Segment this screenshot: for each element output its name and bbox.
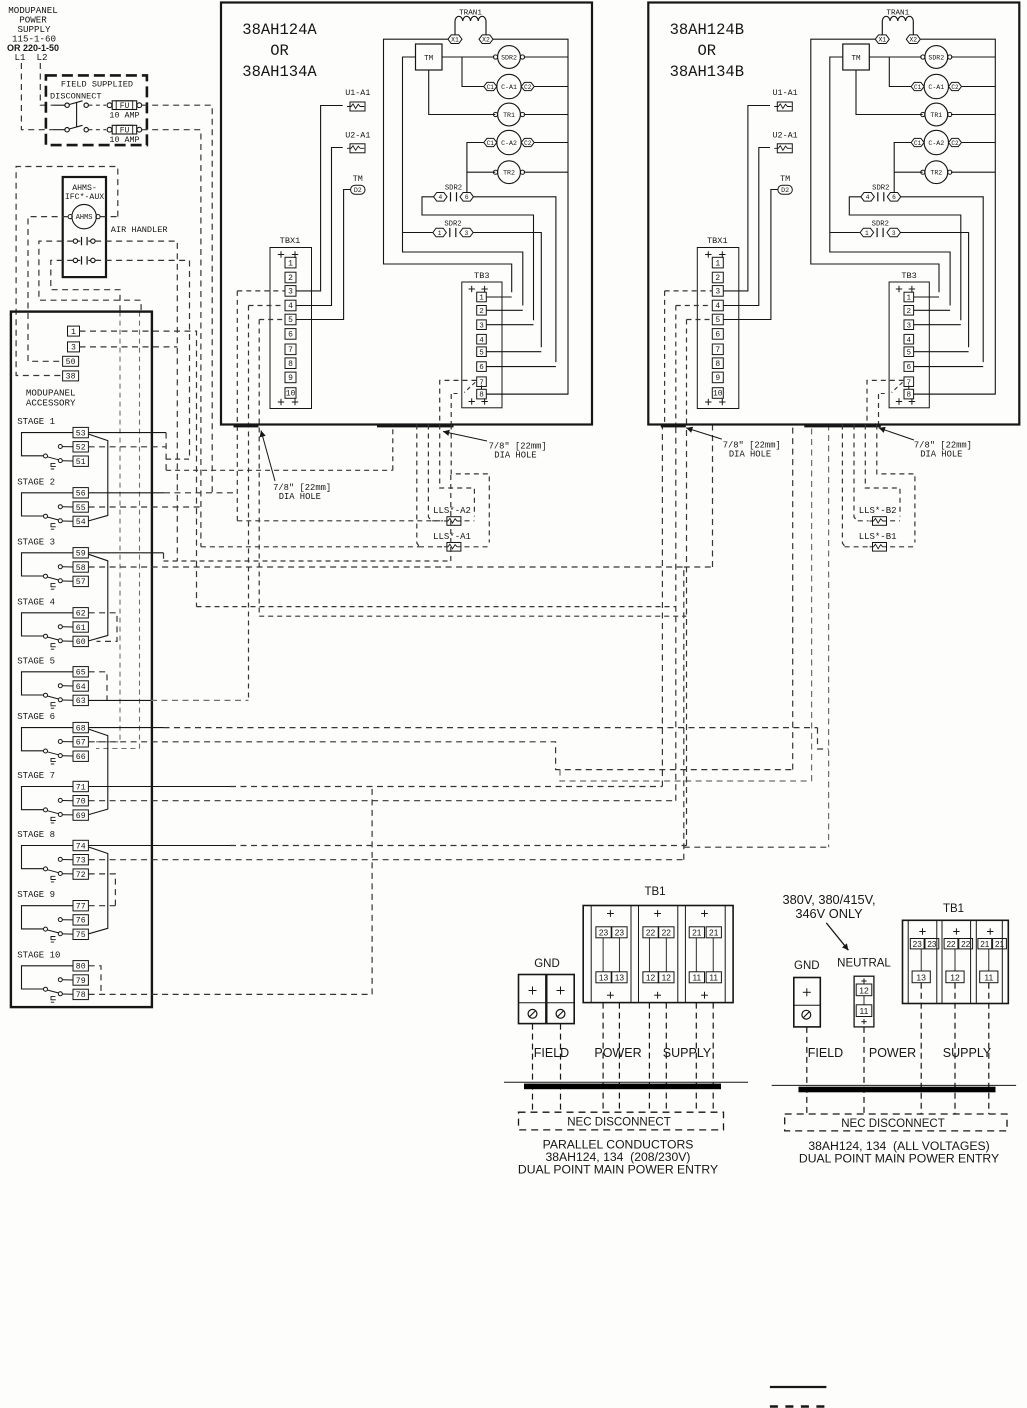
wire mesh run y520 to LLS-A2: [237, 520, 443, 522]
box AHMS-IFC*-AUX: [63, 177, 106, 277]
svg-text:38AH134A: 38AH134A: [242, 63, 317, 81]
switch stage 5 contact: [22, 672, 74, 695]
screw terminal GND right: [802, 1010, 811, 1019]
svg-text:C1: C1: [914, 140, 922, 147]
thick entry bar right: [799, 1087, 996, 1093]
svg-text:L1 L2: L1 L2: [14, 52, 47, 63]
terminal 23 pair TB1 right: [910, 939, 924, 949]
svg-text:6: 6: [288, 331, 293, 340]
wire mesh column 828: [828, 425, 830, 848]
terminal 51: [73, 456, 88, 466]
terminal TB3-2 unit B: [904, 306, 914, 316]
svg-text:AHMS-: AHMS-: [72, 184, 97, 193]
svg-text:23: 23: [913, 940, 923, 949]
wire TB1 right internal links: [920, 949, 922, 971]
svg-text:TR2: TR2: [503, 170, 515, 177]
terminal TB3-4 unit B: [904, 334, 914, 344]
svg-text:AIR HANDLER: AIR HANDLER: [111, 225, 168, 235]
svg-text:69: 69: [76, 812, 86, 821]
wire LLS column 1 B1: [842, 425, 845, 547]
box unit 38AH124B: [648, 3, 1019, 425]
wire LLS column 3 A2: [440, 425, 475, 517]
terminal X1 unit B: [875, 35, 889, 44]
switch stage 3 contact: [22, 553, 74, 576]
terminal 13 pair TB1 left: [596, 972, 611, 983]
svg-text:TM: TM: [424, 55, 434, 63]
wire TB3-7 diagonal dashed unit B: [879, 382, 903, 393]
wire interlock chain stage 8 to stage 9: [89, 847, 108, 934]
terminal 74: [73, 840, 88, 850]
svg-text:59: 59: [76, 550, 86, 559]
wire C-A1 right unit B: [962, 86, 996, 88]
terminal TBX1-5 unit A: [285, 314, 296, 325]
svg-text:6: 6: [465, 194, 469, 201]
wire SDR2 6 right unit B: [901, 197, 983, 362]
svg-text:LLS*-A2: LLS*-A2: [433, 506, 471, 516]
svg-text:SUPPLY: SUPPLY: [663, 1046, 712, 1060]
wire main loop top/left unit B: [811, 39, 939, 292]
svg-text:68: 68: [76, 724, 86, 733]
svg-text:60: 60: [76, 638, 86, 647]
svg-text:C2: C2: [951, 140, 959, 147]
wire TM left unit B: [830, 57, 950, 306]
svg-text:3: 3: [715, 288, 720, 297]
svg-text:DISCONNECT: DISCONNECT: [50, 92, 102, 102]
panel edge line right: [772, 1084, 1016, 1086]
wire TB3-7 to TB3-8 link unit A: [481, 385, 483, 389]
wire AHMS coil left dashed: [28, 217, 68, 362]
svg-text:C-A1: C-A1: [501, 84, 517, 91]
svg-text:5: 5: [907, 349, 912, 357]
terminal 59: [73, 548, 88, 558]
svg-text:65: 65: [76, 669, 86, 678]
wire main loop right unit A: [487, 39, 569, 394]
terminal 76: [73, 915, 88, 925]
terminal 78: [73, 989, 88, 999]
svg-text:OR: OR: [697, 42, 716, 60]
svg-text:FIELD SUPPLIED: FIELD SUPPLIED: [61, 80, 133, 90]
terminal 54: [73, 516, 88, 526]
svg-text:SDR2: SDR2: [872, 185, 889, 193]
svg-text:6: 6: [479, 364, 484, 372]
wire TM right unit B: [869, 56, 921, 58]
wire TBX1-4 field dashed unit B: [676, 305, 713, 307]
svg-text:DIA HOLE: DIA HOLE: [494, 451, 536, 461]
svg-text:23: 23: [615, 928, 625, 938]
svg-text:C-A2: C-A2: [501, 140, 517, 147]
terminal X1 unit A: [448, 35, 462, 44]
terminal TB3-6 unit B: [904, 362, 914, 372]
legend solid line: [770, 1386, 827, 1388]
svg-text:1: 1: [479, 295, 484, 303]
terminal C1 of C-A1 unit B: [911, 82, 924, 90]
wire stage6 67 dashed: [89, 425, 793, 770]
terminal 21 pair TB1 left: [689, 927, 704, 938]
terminal 13 TB1 right: [912, 971, 930, 983]
contactor C-A2 unit A: [497, 130, 521, 154]
svg-text:NEC DISCONNECT: NEC DISCONNECT: [841, 1118, 945, 1130]
relay SDR2 unit B: [925, 46, 948, 69]
screw terminal GND left 2: [556, 1009, 565, 1018]
terminal 73: [73, 855, 88, 865]
svg-text:4: 4: [288, 302, 293, 311]
switch stage 10 contact: [22, 966, 74, 989]
svg-text:U1-A1: U1-A1: [773, 88, 798, 98]
svg-text:STAGE 8: STAGE 8: [17, 830, 55, 840]
svg-text:63: 63: [76, 697, 86, 706]
relay TR1 unit B: [925, 103, 948, 126]
terminal TBX1-6 unit A: [285, 329, 296, 340]
wire LLS column 4 A1: [451, 425, 489, 543]
terminal 68: [73, 722, 88, 732]
wire AHMS coil right dashed: [100, 216, 118, 218]
wire contact1 left dashed: [39, 241, 141, 312]
wire mesh run y561: [164, 474, 451, 561]
svg-text:380V, 380/415V,: 380V, 380/415V,: [783, 892, 876, 907]
wire C-A2 right unit B: [962, 142, 996, 144]
wire terminal 1 dashed: [80, 331, 197, 606]
svg-text:22: 22: [662, 928, 672, 938]
wire TB3-2 unit A: [487, 309, 523, 311]
box unit 38AH124A: [221, 3, 592, 425]
svg-text:73: 73: [76, 856, 86, 865]
box MODUPANEL ACCESSORY: [11, 312, 152, 1008]
svg-text:80: 80: [76, 963, 86, 972]
wire mesh run y606: [197, 606, 676, 608]
terminal 12 TB1 right: [946, 971, 964, 983]
fuse FU 10 AMP upper: [88, 104, 106, 106]
svg-text:54: 54: [76, 518, 86, 527]
svg-text:TB3: TB3: [474, 271, 489, 281]
panel edge line left: [504, 1081, 748, 1083]
wire mesh run y470: [166, 425, 393, 471]
svg-text:52: 52: [76, 444, 86, 453]
svg-text:U1-A1: U1-A1: [345, 88, 370, 98]
contact AHMS aux 1: [73, 239, 77, 243]
svg-text:53: 53: [76, 429, 86, 438]
wire stage10 80 dashed: [89, 966, 101, 995]
svg-text:21: 21: [709, 928, 719, 938]
svg-text:STAGE 9: STAGE 9: [17, 890, 55, 900]
relay TR1 unit A: [498, 103, 521, 126]
svg-text:STAGE 5: STAGE 5: [17, 656, 55, 666]
wire C-A2 right unit A: [534, 142, 568, 144]
svg-text:TM: TM: [780, 174, 790, 184]
wire stage10 78 dashed: [89, 787, 373, 995]
terminal TBX1-8 unit A: [285, 358, 296, 369]
svg-text:38AH124B: 38AH124B: [670, 21, 744, 39]
svg-text:1: 1: [71, 328, 76, 337]
wire stage3 59 output: [89, 552, 164, 554]
wire C-A2 left unit A: [467, 143, 484, 193]
wire TB3-8 unit A: [487, 393, 569, 395]
wire TM right unit A: [442, 56, 494, 58]
svg-text:FIELD: FIELD: [534, 1046, 569, 1060]
svg-text:D2: D2: [354, 187, 362, 194]
wire stage9 77 dashed: [89, 905, 116, 907]
wire interlock chain stage 3 to stage 4: [89, 554, 108, 641]
svg-text:TR1: TR1: [503, 112, 515, 119]
wire TB3-1 unit A: [487, 296, 512, 298]
wire SDR2 3 right unit B: [901, 233, 969, 348]
svg-text:AHMS: AHMS: [76, 214, 93, 222]
svg-text:1: 1: [865, 230, 869, 237]
wire TB3-3 unit B: [914, 324, 961, 326]
terminal C2 of C-A2 unit B: [949, 138, 962, 146]
wire TB3-5 unit B: [914, 351, 969, 353]
svg-text:4: 4: [438, 194, 442, 201]
box FIELD SUPPLIED DISCONNECT: [46, 75, 147, 145]
svg-text:3: 3: [892, 230, 896, 237]
svg-text:1: 1: [288, 259, 293, 268]
wire TBX1-5 field dashed unit A: [259, 319, 285, 321]
wire mesh run y616: [259, 615, 686, 617]
svg-text:75: 75: [76, 931, 86, 940]
switch stage 7 contact: [22, 787, 74, 810]
wire L1 dashed: [21, 63, 53, 130]
wire TM to SDR2 row2 unit B: [830, 232, 860, 234]
svg-text:8: 8: [715, 360, 720, 369]
knockout bar 1 unit A: [234, 424, 259, 428]
wire mesh run y459: [166, 458, 189, 460]
wire TB3-6 unit B: [914, 366, 983, 368]
svg-text:SDR2: SDR2: [501, 54, 517, 61]
terminal 53: [73, 427, 88, 437]
svg-text:C2: C2: [951, 84, 959, 91]
wire contact2 column inside accessory box: [96, 312, 120, 742]
svg-text:2: 2: [907, 308, 912, 316]
wire stage2 55 dashed: [89, 506, 201, 508]
svg-text:4: 4: [715, 302, 720, 311]
contact AHMS aux 2: [73, 258, 77, 262]
terminal 61: [73, 622, 88, 632]
svg-text:X1: X1: [451, 37, 459, 44]
box NEC DISCONNECT left: [519, 1112, 724, 1130]
svg-text:C1: C1: [487, 84, 495, 91]
wire TB3-7 column unit B: [878, 394, 880, 425]
svg-text:C2: C2: [524, 140, 532, 147]
svg-text:21: 21: [692, 928, 702, 938]
terminal TBX1-10 unit B: [712, 388, 723, 399]
terminal TBX1-9 unit A: [285, 372, 296, 383]
svg-text:23: 23: [599, 928, 609, 938]
svg-text:LLS*-B1: LLS*-B1: [859, 532, 897, 542]
wire TB3-7 dashed unit A: [440, 380, 477, 424]
terminal 67: [73, 737, 88, 747]
wire contact2 left dashed: [51, 260, 120, 311]
svg-text:62: 62: [76, 610, 86, 619]
wire TBX1-3 field dashed unit B: [665, 290, 713, 292]
svg-text:TR2: TR2: [930, 170, 942, 177]
switch disconnect pole 1: [54, 104, 65, 106]
svg-text:SDR2: SDR2: [445, 185, 462, 193]
svg-text:9: 9: [288, 374, 293, 383]
terminal 22 pair TB1 right: [944, 939, 958, 949]
relay TM unit A: [416, 44, 443, 70]
terminal C2 of C-A1 unit B: [949, 82, 962, 90]
svg-text:POWER: POWER: [869, 1046, 916, 1060]
wire SDR2 right unit B: [951, 56, 995, 58]
svg-text:NEUTRAL: NEUTRAL: [837, 958, 891, 970]
svg-text:6: 6: [907, 364, 912, 372]
svg-text:U2-A1: U2-A1: [345, 131, 370, 141]
svg-text:POWER: POWER: [594, 1046, 641, 1060]
wire TB1 right drops dashed: [920, 983, 922, 1114]
terminal 21 pair TB1 right: [978, 939, 992, 949]
wire SDR2 right unit A: [524, 56, 568, 58]
svg-text:TBX1: TBX1: [707, 236, 728, 246]
terminal TB3-8 unit B: [904, 389, 914, 399]
svg-text:STAGE 4: STAGE 4: [17, 597, 55, 607]
svg-text:22: 22: [946, 940, 956, 949]
terminal TB3-5 unit A: [477, 347, 487, 357]
svg-text:SDR2: SDR2: [872, 220, 889, 228]
wire fuse upper output dashed: [142, 105, 213, 493]
svg-text:12: 12: [646, 973, 656, 983]
svg-text:DIA HOLE: DIA HOLE: [729, 450, 771, 460]
contactor C-A2 unit B: [924, 130, 948, 154]
svg-text:LLS*-A1: LLS*-A1: [433, 532, 471, 542]
svg-text:12: 12: [662, 973, 672, 983]
svg-text:TRAN1: TRAN1: [886, 10, 909, 18]
wire mesh link 847: [684, 846, 829, 848]
wire stage8 74 output: [89, 845, 230, 847]
svg-text:D2: D2: [781, 187, 789, 194]
terminal 75: [73, 929, 88, 939]
svg-text:DIA HOLE: DIA HOLE: [920, 450, 962, 460]
wire TBX1-3 to U1-A1 unit B: [723, 106, 770, 291]
svg-text:TRAN1: TRAN1: [459, 10, 482, 18]
wire C-A1 right unit A: [534, 86, 568, 88]
svg-text:LLS*-B2: LLS*-B2: [859, 506, 897, 516]
wire TB3-7 to TB3-8 link unit B: [908, 385, 910, 389]
terminal TB3-1 unit A: [477, 292, 487, 302]
terminal 60: [73, 636, 88, 646]
wire GND right drop dashed: [806, 1027, 808, 1114]
wire SDR2 3 right unit A: [473, 233, 541, 348]
svg-text:55: 55: [76, 504, 86, 513]
svg-text:12: 12: [950, 972, 960, 982]
svg-text:10 AMP: 10 AMP: [109, 135, 139, 145]
wire TBX1-5 to TM D2 unit A: [296, 190, 351, 320]
svg-text:67: 67: [76, 739, 86, 748]
svg-text:77: 77: [76, 902, 86, 911]
terminal 66: [73, 751, 88, 761]
svg-text:C1: C1: [487, 140, 495, 147]
switch stage 4 contact: [22, 613, 74, 636]
terminal C2 of C-A2 unit A: [521, 138, 534, 146]
terminal TB3-4 unit A: [477, 334, 487, 344]
svg-text:58: 58: [76, 564, 86, 573]
svg-text:5: 5: [288, 316, 293, 325]
svg-text:5: 5: [479, 349, 484, 357]
wire TBX1-4 field dashed unit A: [249, 305, 286, 307]
svg-text:DUAL POINT MAIN POWER ENTRY: DUAL POINT MAIN POWER ENTRY: [799, 1152, 999, 1166]
svg-text:38AH124A: 38AH124A: [242, 21, 317, 39]
terminal TBX1-3 unit B: [712, 286, 723, 297]
svg-text:11: 11: [860, 1006, 869, 1016]
svg-text:56: 56: [76, 490, 86, 499]
contactor C-A1 unit B: [924, 74, 948, 98]
wire TR2 right unit B: [951, 171, 995, 173]
wire TR1 right unit A: [524, 114, 568, 116]
relay SDR2 unit A: [498, 46, 521, 69]
terminal 11 TB1 right: [980, 971, 998, 983]
fuse FU 10 AMP lower: [88, 129, 106, 131]
terminal 55: [73, 502, 88, 512]
wire TBX1-4 to U2-A1 unit A: [296, 148, 343, 306]
svg-text:OR: OR: [270, 42, 289, 60]
svg-text:10 AMP: 10 AMP: [109, 111, 139, 121]
wire LLS column 3 B2: [865, 425, 900, 517]
svg-text:DIA HOLE: DIA HOLE: [279, 492, 321, 502]
terminal C1 of C-A1 unit A: [484, 82, 497, 90]
box NEC DISCONNECT right: [785, 1114, 1007, 1131]
wire SDR2 6 right unit A: [474, 197, 556, 362]
wire GND left drops dashed: [532, 1024, 534, 1112]
svg-text:NEC DISCONNECT: NEC DISCONNECT: [567, 1117, 671, 1129]
svg-text:C2: C2: [524, 84, 532, 91]
svg-text:50: 50: [66, 358, 76, 367]
svg-text:23: 23: [927, 940, 937, 949]
svg-text:IFC*-AUX: IFC*-AUX: [65, 192, 104, 202]
terminal 12 pair TB1 left: [643, 972, 658, 983]
arrow to neutral: [826, 923, 848, 950]
wire TB3-8 unit B: [914, 393, 996, 395]
svg-text:X2: X2: [909, 37, 917, 44]
wire fuse lower output dashed: [142, 130, 201, 547]
terminal C2 of C-A1 unit A: [521, 82, 534, 90]
svg-text:1: 1: [715, 259, 720, 268]
svg-text:SDR2: SDR2: [928, 54, 944, 61]
wire mesh run y546 to LLS-A1: [201, 546, 419, 548]
wire TB3-7 column unit A: [450, 394, 452, 425]
knockout bar 2 unit B: [804, 424, 881, 428]
svg-text:1: 1: [438, 230, 442, 237]
svg-text:C1: C1: [914, 84, 922, 91]
wire stage6 68 output: [89, 727, 164, 729]
wire SDR2 4 left loop unit B: [849, 197, 961, 320]
contactor C-A1 unit A: [497, 74, 521, 98]
wire LLS column 4 B1: [877, 425, 915, 543]
wire TM to SDR2 row2 unit A: [403, 232, 433, 234]
svg-text:TB3: TB3: [901, 271, 916, 281]
terminal TB3-3 unit B: [904, 320, 914, 330]
svg-text:76: 76: [76, 917, 86, 926]
terminal TB3-8 unit A: [477, 389, 487, 399]
terminal TB3-1 unit B: [904, 292, 914, 302]
svg-text:TB1: TB1: [943, 903, 964, 915]
svg-text:X2: X2: [482, 37, 490, 44]
terminal TBX1-5 unit B: [712, 314, 723, 325]
terminal TBX1-1 unit B: [712, 257, 723, 268]
wire stage7 71 output: [89, 786, 230, 788]
terminal TBX1-4 unit A: [285, 300, 296, 311]
svg-text:11: 11: [709, 973, 718, 983]
legend dashed line: [770, 1405, 827, 1408]
svg-text:GND: GND: [534, 958, 560, 970]
wire stage5 65 dashed: [89, 672, 107, 701]
wire LLS A1 dashed: [419, 546, 443, 548]
svg-text:U2-A1: U2-A1: [773, 131, 798, 141]
switch stage 6 contact: [22, 728, 74, 751]
svg-text:66: 66: [76, 753, 86, 762]
svg-text:9: 9: [715, 374, 720, 383]
terminal C1 of C-A2 unit A: [484, 138, 497, 146]
wire TB3-6 unit A: [487, 366, 556, 368]
svg-text:57: 57: [76, 578, 86, 587]
wire TB3-3 unit A: [487, 324, 534, 326]
